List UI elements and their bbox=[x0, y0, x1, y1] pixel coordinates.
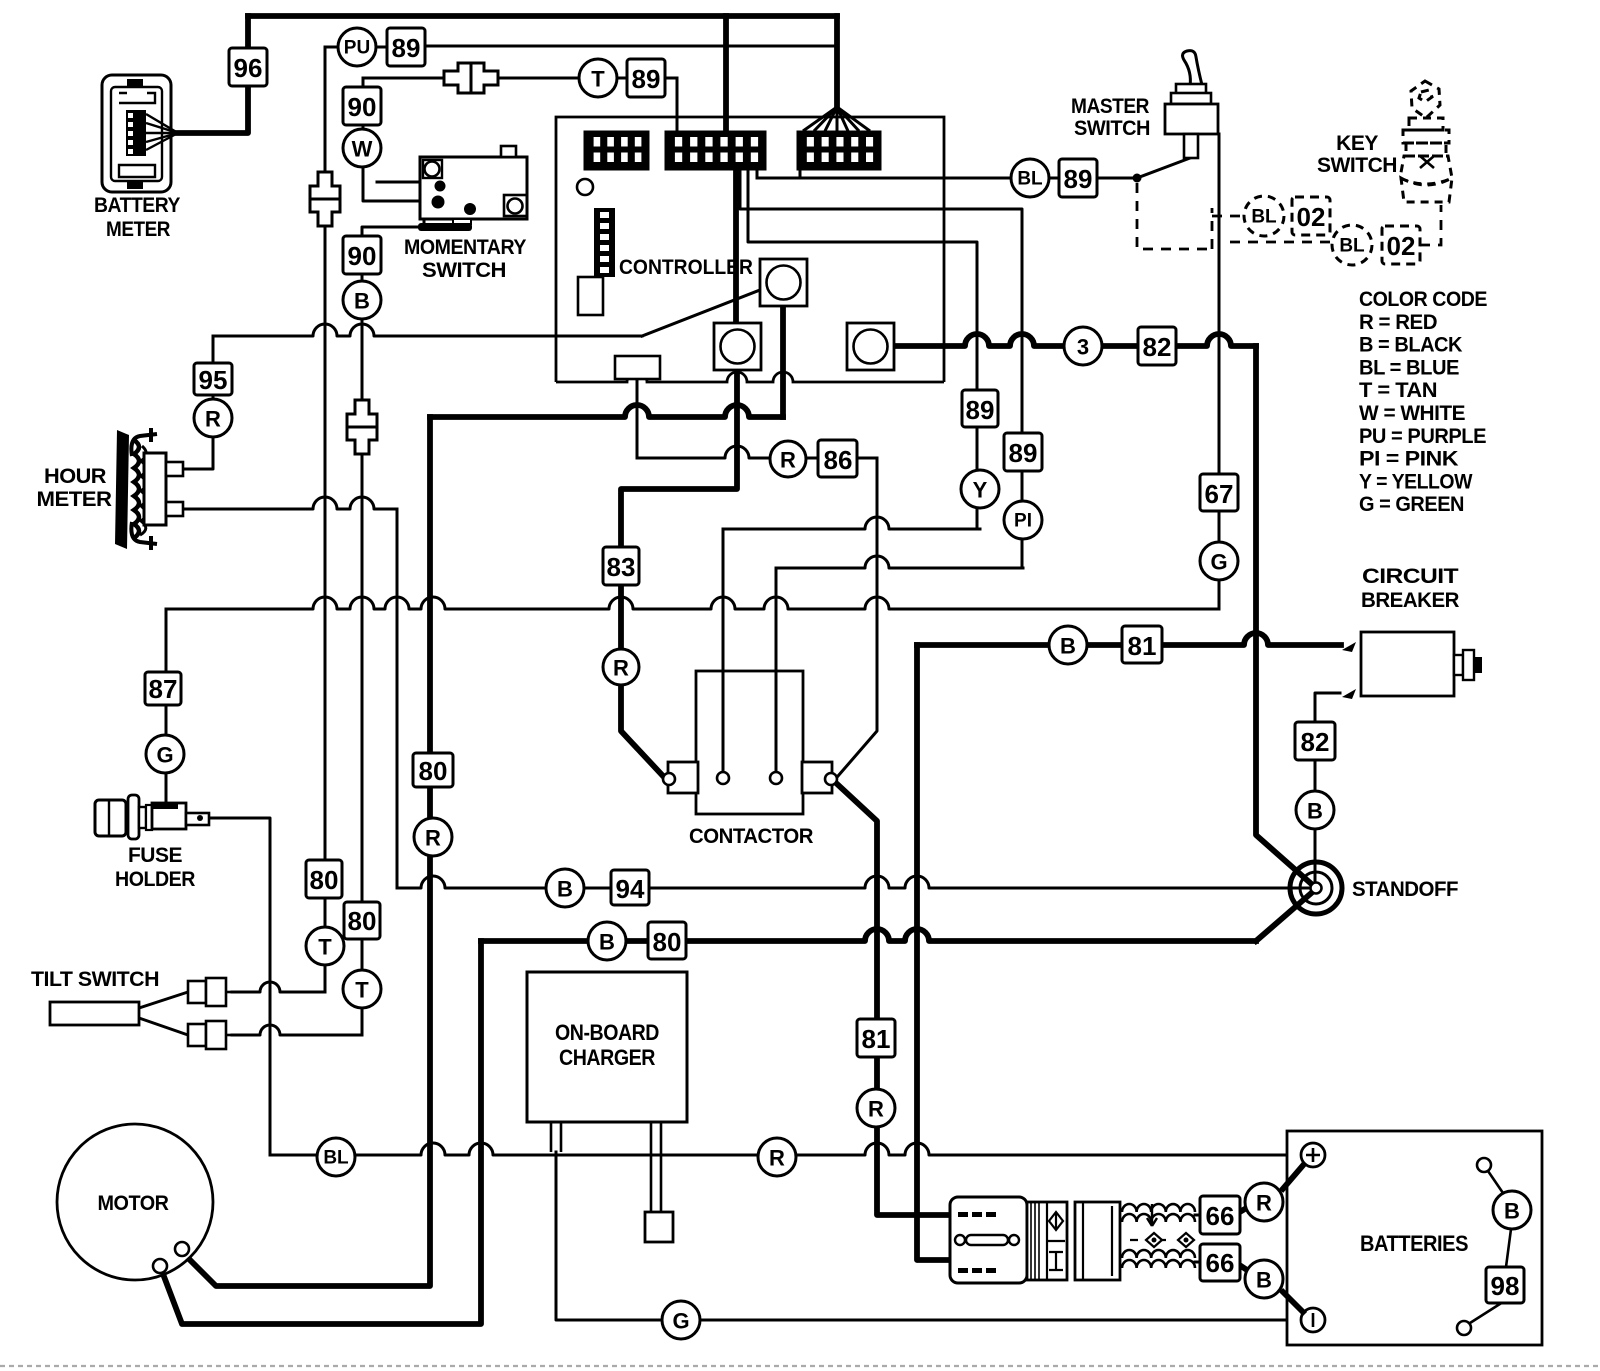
wire 95-R - to hour meter upper pin bbox=[183, 336, 213, 469]
wire label 66 bbox=[1200, 1244, 1240, 1281]
wire BL-02 dashed - master switch to key switch bbox=[1137, 183, 1441, 249]
wire 90-W - to momentary switch bbox=[363, 78, 420, 201]
on-board charger bbox=[527, 972, 687, 1122]
wire - coils to 66 labels bbox=[1195, 1215, 1202, 1262]
svg-text:82: 82 bbox=[1143, 332, 1172, 362]
svg-text:R: R bbox=[780, 448, 796, 473]
color tag R bbox=[770, 441, 806, 477]
wire label 80 bbox=[306, 860, 342, 898]
wire - tilt switch lower connector run bbox=[232, 1025, 362, 1035]
svg-text:R: R bbox=[868, 1097, 884, 1122]
controller terminal 1 bbox=[760, 259, 807, 306]
label FUSE HOLDER bbox=[115, 844, 195, 891]
svg-text:G = GREEN: G = GREEN bbox=[1359, 493, 1464, 516]
svg-text:BATTERIES: BATTERIES bbox=[1360, 1231, 1468, 1256]
svg-text:89: 89 bbox=[1009, 438, 1038, 468]
color tag B bbox=[1493, 1191, 1531, 1229]
wire - bus drop to controller harness fan bbox=[834, 16, 840, 107]
svg-text:Y: Y bbox=[973, 478, 988, 503]
wire 80 chain - long vertical x325 bbox=[324, 47, 327, 992]
svg-text:T: T bbox=[318, 935, 332, 960]
battery connector housing bbox=[950, 1197, 1027, 1283]
svg-text:02: 02 bbox=[1387, 231, 1416, 261]
wire R - connector tag to battery positive bbox=[1281, 1163, 1305, 1191]
svg-text:ON-BOARD: ON-BOARD bbox=[555, 1020, 659, 1045]
wire label 81 bbox=[1122, 626, 1162, 663]
svg-text:B: B bbox=[1060, 634, 1076, 659]
wire label 67 bbox=[1200, 474, 1238, 511]
svg-text:B: B bbox=[1256, 1268, 1272, 1293]
wire label 89 bbox=[387, 28, 425, 66]
wire B-80 - diagonal to standoff bbox=[1256, 889, 1316, 941]
color tag R bbox=[758, 1138, 796, 1176]
svg-text:94: 94 bbox=[616, 874, 645, 904]
wire 94 - vertical x397 bbox=[396, 509, 399, 888]
controller pin strip bbox=[594, 208, 615, 277]
charger plug connector bbox=[645, 1212, 673, 1242]
svg-text:HOLDER: HOLDER bbox=[115, 868, 195, 891]
wire label 98 bbox=[1486, 1267, 1524, 1303]
controller connector J2 bbox=[665, 131, 766, 170]
color tag R bbox=[194, 399, 232, 437]
wire label 90 bbox=[343, 236, 381, 274]
svg-text:PU = PURPLE: PU = PURPLE bbox=[1359, 425, 1486, 448]
wire BL-89 - controller to master switch bbox=[757, 170, 1137, 178]
wire label 80 bbox=[344, 902, 380, 939]
wire label 80 bbox=[648, 922, 686, 959]
wire - controller connector to terminal 2 bbox=[733, 170, 739, 323]
key switch bbox=[1400, 81, 1452, 202]
hour meter bbox=[115, 428, 183, 550]
svg-text:89: 89 bbox=[392, 33, 421, 63]
wire label 95 bbox=[194, 363, 232, 395]
wire 89-Y - horizontal y529 bbox=[723, 517, 980, 529]
wire 82-B - circuit breaker to standoff bbox=[1315, 693, 1340, 888]
wire BL - fuse holder to bottom run bbox=[209, 818, 270, 1155]
motor bbox=[57, 1124, 213, 1280]
wire 89-PI - horizontal y568 bbox=[776, 556, 1023, 568]
color tag PI bbox=[1004, 501, 1042, 539]
wire label 89 bbox=[962, 390, 998, 427]
label BATTERIES bbox=[1360, 1231, 1468, 1256]
color tag B bbox=[343, 281, 381, 319]
svg-text:CONTROLLER: CONTROLLER bbox=[619, 256, 753, 279]
battery lead coils bbox=[1122, 1204, 1195, 1268]
wire label 86 bbox=[818, 440, 857, 477]
inline connector on wire 80 (x325) bbox=[310, 172, 340, 226]
wire label 89 bbox=[1004, 433, 1042, 471]
inline connector on wire 90 (x362) bbox=[347, 400, 377, 454]
wire - bus drop to controller middle connector bbox=[723, 16, 729, 131]
controller outline bbox=[556, 117, 944, 382]
wire 66 to B tag link bbox=[1238, 1264, 1250, 1272]
svg-text:80: 80 bbox=[653, 927, 682, 957]
label TILT SWITCH bbox=[31, 968, 159, 991]
wire label 02 (dashed) bbox=[1382, 226, 1420, 264]
controller connector J3 bbox=[797, 131, 881, 170]
wire B-81 - to circuit breaker bbox=[917, 633, 1341, 645]
wire label 82 bbox=[1138, 327, 1176, 365]
label MASTER SWITCH bbox=[1071, 95, 1150, 140]
color tag BL bbox=[1011, 159, 1049, 197]
tilt switch bbox=[50, 1002, 139, 1025]
svg-text:66: 66 bbox=[1206, 1201, 1235, 1231]
svg-text:R: R bbox=[613, 656, 629, 681]
color tag B bbox=[1049, 626, 1087, 664]
color tag T bbox=[343, 970, 381, 1008]
svg-text:SWITCH: SWITCH bbox=[1317, 154, 1397, 177]
svg-text:G: G bbox=[1210, 550, 1227, 575]
svg-text:B = BLACK: B = BLACK bbox=[1359, 334, 1462, 357]
wire label 89 bbox=[1059, 159, 1097, 197]
svg-text:90: 90 bbox=[348, 92, 377, 122]
wire - tilt switch leads bbox=[139, 992, 188, 1035]
momentary switch bbox=[418, 146, 527, 231]
wire 80 - horizontal run y417 bbox=[430, 405, 783, 417]
wire B - connector tag to battery negative bbox=[1281, 1290, 1305, 1314]
circuit breaker bbox=[1342, 632, 1482, 699]
svg-text:BL: BL bbox=[1251, 207, 1277, 228]
svg-text:02: 02 bbox=[1297, 202, 1326, 232]
wire 81 - down to battery connector lower stub bbox=[917, 645, 950, 1260]
battery meter bbox=[102, 75, 178, 192]
wire 96 - bus to battery meter bbox=[178, 16, 248, 133]
wire BL-R - bottom run to battery positive bbox=[270, 1143, 1302, 1155]
color tag Y bbox=[961, 470, 999, 508]
charger right output stub bbox=[651, 1122, 661, 1212]
wire label 81 bbox=[857, 1019, 895, 1057]
svg-text:80: 80 bbox=[310, 865, 339, 895]
wire label 02 (dashed) bbox=[1292, 197, 1330, 235]
svg-text:81: 81 bbox=[862, 1024, 891, 1054]
color tag G bbox=[1200, 542, 1238, 580]
svg-text:B: B bbox=[557, 877, 573, 902]
svg-text:90: 90 bbox=[348, 241, 377, 271]
wire label 89 bbox=[627, 59, 665, 97]
wire 3-82 - controller terminal 3 bus bbox=[894, 334, 1256, 346]
svg-text:R: R bbox=[1256, 1191, 1272, 1216]
wire 94 - hour meter lower pin run bbox=[182, 497, 397, 509]
contactor bbox=[663, 671, 837, 814]
svg-text:T = TAN: T = TAN bbox=[1359, 379, 1437, 402]
svg-text:87: 87 bbox=[149, 674, 178, 704]
wire 95 - horizontal y336 bbox=[213, 324, 642, 336]
svg-text:MASTER: MASTER bbox=[1071, 95, 1149, 118]
label CIRCUIT BREAKER bbox=[1361, 565, 1459, 612]
svg-text:SWITCH: SWITCH bbox=[1074, 117, 1150, 140]
svg-text:PU: PU bbox=[344, 38, 370, 59]
svg-text:METER: METER bbox=[106, 218, 170, 241]
svg-text:TILT SWITCH: TILT SWITCH bbox=[31, 968, 159, 991]
wire 95 - diagonal to controller terminal 1 bbox=[642, 290, 760, 336]
svg-text:BL: BL bbox=[323, 1148, 349, 1169]
svg-text:W = WHITE: W = WHITE bbox=[1359, 402, 1465, 425]
svg-text:B: B bbox=[599, 930, 615, 955]
svg-text:B: B bbox=[1504, 1199, 1520, 1224]
svg-text:CHARGER: CHARGER bbox=[559, 1045, 656, 1070]
wire T-89 - into controller bbox=[617, 78, 677, 131]
svg-text:89: 89 bbox=[966, 395, 995, 425]
controller connector J1 bbox=[584, 131, 649, 170]
svg-text:MOTOR: MOTOR bbox=[98, 1192, 169, 1215]
color tag BL bbox=[317, 1138, 355, 1176]
battery interconnect wires bbox=[1457, 1158, 1511, 1335]
wire label 87 bbox=[145, 672, 181, 705]
color code legend bbox=[1359, 288, 1487, 516]
junction dot bbox=[1133, 174, 1142, 183]
wire label 90 bbox=[343, 87, 381, 125]
svg-text:G: G bbox=[156, 743, 173, 768]
svg-text:B: B bbox=[354, 289, 370, 314]
color tag BL (dashed) bbox=[1244, 196, 1284, 236]
color tag R bbox=[1245, 1183, 1283, 1221]
color tag W bbox=[343, 129, 381, 167]
wire B-80 - horizontal run y941 bbox=[481, 929, 1256, 941]
tilt switch lower connector bbox=[188, 1021, 233, 1049]
wire label 83 bbox=[603, 547, 639, 585]
battery connector interlock bbox=[1027, 1202, 1067, 1280]
svg-text:81: 81 bbox=[1128, 631, 1157, 661]
label MOTOR bbox=[98, 1192, 169, 1215]
tilt switch upper connector bbox=[188, 978, 233, 1006]
color tag R bbox=[414, 818, 452, 856]
wire 66 to R tag link bbox=[1238, 1206, 1250, 1213]
wire 82 - down to standoff bbox=[1256, 346, 1316, 888]
svg-text:R: R bbox=[425, 826, 441, 851]
wire - controller harness fan bbox=[803, 107, 870, 131]
wire 87-G - to fuse holder bbox=[165, 609, 168, 804]
controller resistor block bbox=[615, 356, 660, 379]
svg-text:PI: PI bbox=[1014, 511, 1032, 532]
svg-text:SWITCH: SWITCH bbox=[422, 259, 506, 282]
controller component block bbox=[578, 277, 603, 315]
wire label 96 bbox=[229, 48, 267, 86]
label KEY SWITCH bbox=[1317, 132, 1397, 177]
svg-text:R: R bbox=[769, 1146, 785, 1171]
color tag T bbox=[306, 927, 344, 965]
wire 86 - down to contactor right tab bbox=[838, 458, 877, 776]
wire 81 - contactor right tab to battery connector upper stub bbox=[836, 783, 950, 1215]
controller mounting hole bbox=[577, 179, 593, 195]
svg-text:COLOR CODE: COLOR CODE bbox=[1359, 288, 1487, 311]
wire 67-G - master switch down bbox=[1218, 134, 1221, 609]
wire label 80 bbox=[413, 753, 453, 787]
wire 89-PI - controller chain bbox=[740, 170, 1022, 568]
wire - down to contactor coil pin 2 bbox=[775, 568, 778, 778]
svg-text:MOMENTARY: MOMENTARY bbox=[404, 236, 526, 259]
inline connector on wire T-89 bbox=[444, 63, 498, 93]
wire label 66 bbox=[1200, 1196, 1240, 1234]
label HOUR METER bbox=[37, 465, 112, 511]
svg-text:PI = PINK: PI = PINK bbox=[1359, 448, 1458, 471]
svg-text:BL = BLUE: BL = BLUE bbox=[1359, 356, 1459, 379]
svg-text:82: 82 bbox=[1301, 727, 1330, 757]
svg-text:B: B bbox=[1307, 799, 1323, 824]
svg-text:83: 83 bbox=[607, 552, 636, 582]
svg-text:BREAKER: BREAKER bbox=[1361, 589, 1459, 612]
svg-text:G: G bbox=[672, 1309, 689, 1334]
wire - main battery positive bus (top) bbox=[248, 13, 837, 19]
label STANDOFF bbox=[1352, 878, 1459, 901]
label BATTERY METER bbox=[94, 194, 180, 241]
wire 83 - controller terminal 2 to contactor left tab bbox=[621, 369, 737, 776]
color tag R bbox=[857, 1089, 895, 1127]
svg-text:R = RED: R = RED bbox=[1359, 311, 1437, 334]
batteries box bbox=[1287, 1131, 1542, 1345]
svg-text:66: 66 bbox=[1206, 1248, 1235, 1278]
svg-text:BL: BL bbox=[1339, 236, 1365, 257]
standoff bbox=[1290, 862, 1342, 914]
color tag BL (dashed) bbox=[1332, 225, 1372, 265]
svg-text:96: 96 bbox=[234, 53, 263, 83]
color tag R bbox=[603, 649, 639, 685]
wire 80 - controller terminal 1 down bbox=[780, 306, 786, 417]
svg-text:CONTACTOR: CONTACTOR bbox=[689, 825, 813, 848]
fuse holder bbox=[95, 795, 209, 839]
color tag B bbox=[588, 922, 626, 960]
svg-text:80: 80 bbox=[419, 756, 448, 786]
wire R-86 - from controller component bbox=[636, 379, 639, 458]
master switch bbox=[1165, 51, 1218, 158]
svg-text:KEY: KEY bbox=[1336, 132, 1378, 155]
scan border artifact bbox=[0, 1365, 1600, 1367]
wire G - charger to battery negative bbox=[556, 1152, 1302, 1320]
wire 90-B - momentary switch to tilt chain x362 bbox=[362, 219, 424, 1035]
label MOMENTARY SWITCH bbox=[404, 236, 526, 282]
battery negative terminal bbox=[1301, 1308, 1325, 1332]
svg-text:95: 95 bbox=[199, 365, 228, 395]
svg-text:Y = YELLOW: Y = YELLOW bbox=[1359, 470, 1473, 493]
label CONTROLLER bbox=[619, 256, 753, 279]
svg-text:W: W bbox=[352, 137, 373, 162]
wire T-89 - row left part bbox=[363, 77, 579, 80]
wire R-86 - horizontal y458 bbox=[637, 446, 877, 458]
controller terminal 3 bbox=[847, 323, 894, 370]
svg-text:FUSE: FUSE bbox=[128, 844, 183, 867]
battery connector plug bbox=[1075, 1202, 1120, 1280]
wire - momentary switch upper stub bbox=[377, 181, 420, 184]
wire 87-67 - horizontal bus y609 bbox=[166, 597, 1219, 609]
controller terminal 2 bbox=[714, 323, 761, 370]
color tag T bbox=[579, 59, 617, 97]
svg-text:METER: METER bbox=[37, 488, 112, 511]
label CONTACTOR bbox=[689, 825, 813, 848]
wire 89-Y - controller chain bbox=[748, 170, 977, 529]
svg-text:T: T bbox=[355, 978, 369, 1003]
wire label 82 bbox=[1295, 722, 1335, 760]
svg-text:86: 86 bbox=[824, 445, 853, 475]
svg-text:BATTERY: BATTERY bbox=[94, 194, 180, 217]
svg-text:R: R bbox=[205, 407, 221, 432]
svg-text:89: 89 bbox=[1064, 164, 1093, 194]
color tag B bbox=[1245, 1260, 1283, 1298]
wire - tilt switch upper connector run bbox=[232, 982, 325, 992]
wire 80 - down to motor terminal bbox=[182, 417, 430, 1286]
svg-text:HOUR: HOUR bbox=[44, 465, 106, 488]
wire - junction to master switch stem bbox=[1137, 158, 1190, 178]
color tag B bbox=[1296, 791, 1334, 829]
svg-text:BL: BL bbox=[1017, 169, 1043, 190]
svg-text:98: 98 bbox=[1491, 1271, 1520, 1301]
svg-text:T: T bbox=[591, 67, 605, 92]
svg-text:CIRCUIT: CIRCUIT bbox=[1362, 565, 1459, 588]
charger left output stub bbox=[551, 1122, 561, 1152]
color tag PU bbox=[338, 28, 376, 66]
wire PU-89 - top row bbox=[325, 46, 837, 47]
color tag B bbox=[546, 869, 584, 907]
wire label 94 bbox=[611, 870, 649, 905]
svg-text:3: 3 bbox=[1077, 335, 1089, 360]
wire B-94 - to standoff bbox=[397, 876, 1316, 888]
wire B-80 - motor terminal up bbox=[160, 941, 481, 1324]
color tag G bbox=[146, 735, 184, 773]
battery positive terminal bbox=[1301, 1143, 1325, 1167]
svg-text:89: 89 bbox=[632, 64, 661, 94]
color tag G bbox=[662, 1301, 700, 1339]
wire - down to contactor coil pin 1 bbox=[722, 529, 725, 778]
wire tag 3 bbox=[1064, 327, 1102, 365]
svg-text:80: 80 bbox=[348, 906, 377, 936]
svg-text:STANDOFF: STANDOFF bbox=[1352, 878, 1459, 901]
svg-text:67: 67 bbox=[1205, 479, 1234, 509]
